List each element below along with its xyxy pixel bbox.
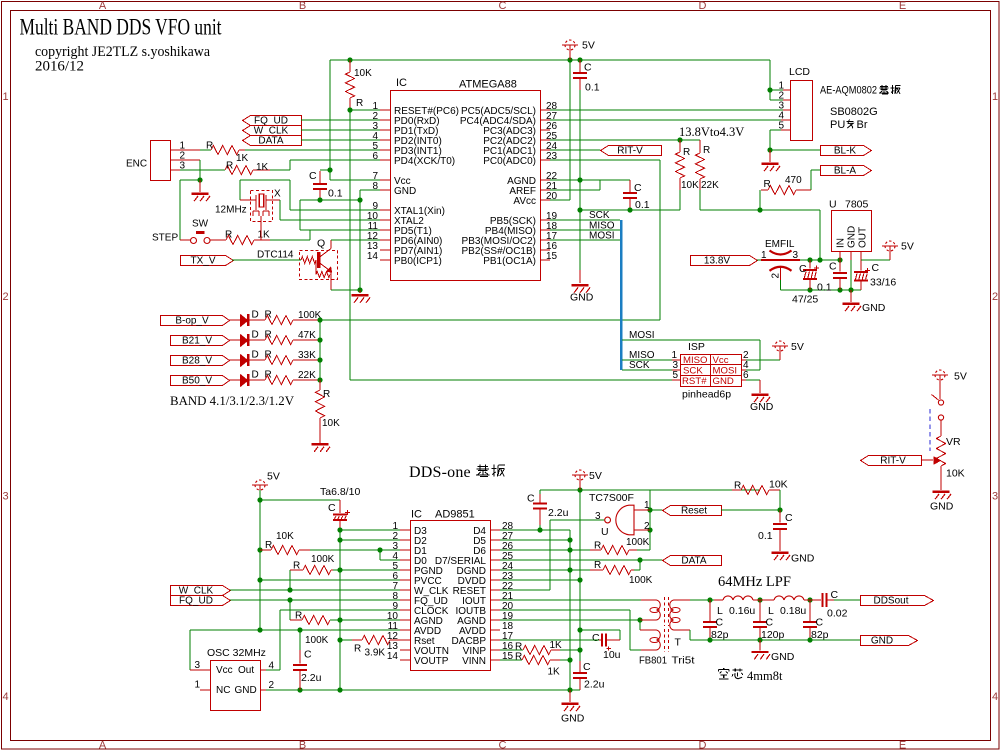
svg-text:C: C [304, 649, 312, 661]
svg-text:C: C [499, 740, 507, 750]
svg-text:L: L [717, 605, 723, 617]
svg-text:VINN: VINN [462, 656, 486, 667]
svg-text:DDS-one: DDS-one [409, 464, 471, 481]
svg-text:1K: 1K [548, 667, 561, 678]
svg-text:C: C [816, 617, 824, 629]
svg-text:GND: GND [561, 713, 585, 725]
svg-text:5V: 5V [954, 371, 967, 383]
svg-text:22K: 22K [701, 180, 719, 191]
svg-text:GND: GND [930, 501, 954, 513]
svg-text:C: C [527, 493, 535, 505]
svg-text:VOUTP: VOUTP [414, 656, 449, 667]
svg-text:GND: GND [394, 186, 416, 197]
svg-text:D: D [699, 740, 707, 750]
svg-text:4: 4 [269, 661, 275, 672]
svg-text:5V: 5V [791, 341, 804, 353]
svg-text:6: 6 [743, 370, 749, 381]
svg-text:1K: 1K [550, 640, 563, 651]
svg-text:SW: SW [192, 219, 209, 230]
svg-text:2.2u: 2.2u [584, 679, 605, 691]
svg-text:A: A [99, 740, 107, 750]
svg-text:pinhead6p: pinhead6p [682, 389, 731, 401]
svg-text:13.8Vto4.3V: 13.8Vto4.3V [679, 125, 744, 139]
svg-text:RIT-V: RIT-V [617, 146, 643, 157]
svg-text:14: 14 [367, 251, 379, 262]
svg-text:OUT: OUT [858, 227, 869, 248]
svg-text:10K: 10K [769, 479, 788, 491]
svg-text:5V: 5V [901, 241, 914, 253]
svg-text:PU: PU [830, 119, 845, 131]
svg-text:3: 3 [595, 511, 601, 522]
svg-text:0.1: 0.1 [758, 530, 773, 542]
svg-text:X: X [274, 189, 281, 200]
svg-text:ENC: ENC [126, 159, 147, 170]
svg-text:BL-K: BL-K [834, 146, 857, 157]
svg-text:R: R [594, 560, 601, 571]
svg-text:GND: GND [750, 401, 774, 413]
svg-text:NC: NC [216, 685, 230, 696]
svg-text:7805: 7805 [845, 199, 869, 211]
svg-text:R: R [265, 369, 272, 380]
svg-text:SCK: SCK [589, 210, 610, 221]
svg-text:MOSI: MOSI [713, 366, 738, 377]
svg-text:GND: GND [570, 292, 594, 304]
svg-text:BL-A: BL-A [834, 166, 857, 177]
svg-text:C: C [716, 617, 724, 629]
svg-text:Q: Q [317, 238, 325, 250]
svg-text:Reset: Reset [681, 506, 707, 517]
svg-text:D: D [252, 329, 259, 340]
svg-text:PD4(XCK/T0): PD4(XCK/T0) [394, 156, 455, 167]
svg-text:R: R [354, 644, 361, 655]
svg-text:1K: 1K [258, 230, 271, 241]
svg-text:0.1: 0.1 [817, 282, 832, 294]
svg-text:33K: 33K [298, 350, 316, 361]
svg-text:100K: 100K [305, 635, 329, 646]
svg-text:D: D [252, 369, 259, 380]
svg-text:ISP: ISP [688, 341, 705, 353]
svg-text:R: R [764, 179, 771, 190]
svg-text:Vcc: Vcc [713, 355, 729, 366]
svg-text:TX_V: TX_V [190, 256, 215, 267]
svg-text:AVcc: AVcc [513, 196, 536, 207]
svg-text:U: U [601, 526, 609, 538]
svg-text:4: 4 [992, 691, 998, 703]
svg-text:PB0(ICP1): PB0(ICP1) [394, 256, 442, 267]
svg-text:2: 2 [2, 291, 8, 303]
svg-text:T: T [675, 637, 682, 649]
svg-text:PC0(ADC0): PC0(ADC0) [483, 156, 536, 167]
svg-text:R: R [356, 98, 363, 109]
svg-text:2: 2 [771, 273, 782, 279]
svg-text:3.9K: 3.9K [365, 648, 386, 659]
svg-text:Tri5t: Tri5t [672, 655, 695, 667]
svg-text:C: C [583, 661, 591, 673]
svg-text:3: 3 [2, 491, 8, 503]
svg-text:5: 5 [672, 370, 678, 381]
svg-text:C: C [831, 589, 839, 601]
svg-text:R: R [265, 329, 272, 340]
svg-text:C: C [634, 182, 642, 194]
svg-text:Ta6.8/10: Ta6.8/10 [320, 486, 360, 498]
svg-text:10K: 10K [322, 418, 340, 429]
svg-text:GND: GND [847, 226, 858, 248]
svg-text:5V: 5V [589, 470, 602, 482]
svg-text:DATA: DATA [258, 136, 284, 147]
svg-text:AD9851: AD9851 [435, 509, 475, 521]
svg-text:64MHz LPF: 64MHz LPF [718, 574, 791, 590]
svg-text:R: R [225, 230, 232, 241]
svg-text:GND: GND [771, 651, 795, 663]
svg-text:0.02: 0.02 [827, 608, 848, 620]
svg-text:L: L [768, 605, 774, 617]
svg-text:2.2u: 2.2u [548, 507, 569, 519]
svg-text:1: 1 [644, 500, 650, 511]
svg-text:1: 1 [2, 91, 8, 103]
svg-text:4: 4 [2, 691, 8, 703]
svg-text:OSC 32MHz: OSC 32MHz [207, 647, 266, 659]
svg-text:3: 3 [992, 491, 998, 503]
svg-text:GND: GND [871, 636, 893, 647]
svg-text:DATA: DATA [681, 556, 707, 567]
svg-text:B: B [299, 740, 306, 750]
svg-text:5: 5 [778, 121, 784, 132]
svg-text:SCK: SCK [629, 360, 650, 371]
svg-text:1K: 1K [236, 153, 249, 164]
svg-text:0.18u: 0.18u [780, 605, 806, 617]
svg-text:2.2u: 2.2u [301, 672, 322, 684]
svg-text:13.8V: 13.8V [704, 256, 730, 267]
svg-text:1: 1 [194, 680, 200, 691]
svg-text:R: R [226, 161, 233, 172]
svg-text:100K: 100K [629, 575, 653, 586]
svg-text:12MHz: 12MHz [215, 205, 247, 216]
svg-text:C: C [309, 170, 317, 182]
svg-text:B28_V: B28_V [182, 356, 212, 367]
svg-text:100K: 100K [626, 537, 650, 548]
svg-text:0.1: 0.1 [328, 188, 343, 200]
svg-text:2: 2 [269, 680, 275, 691]
svg-text:5V: 5V [582, 40, 595, 52]
svg-text:TC7S00F: TC7S00F [589, 492, 634, 504]
svg-text:47/25: 47/25 [792, 294, 818, 306]
svg-text:82p: 82p [711, 629, 729, 641]
svg-text:MOSI: MOSI [629, 330, 655, 341]
svg-text:FQ_UD: FQ_UD [179, 596, 213, 607]
svg-text:2: 2 [992, 291, 998, 303]
svg-text:D: D [699, 0, 707, 12]
svg-text:B50_V: B50_V [182, 376, 212, 387]
svg-text:R: R [206, 141, 213, 152]
svg-text:R: R [295, 611, 302, 622]
svg-text:GND: GND [713, 376, 734, 387]
svg-text:R: R [265, 349, 272, 360]
svg-text:D: D [252, 309, 259, 320]
svg-text:120p: 120p [761, 629, 785, 641]
svg-text:C: C [829, 261, 837, 273]
svg-text:BAND 4.1/3.1/2.3/1.2V: BAND 4.1/3.1/2.3/1.2V [170, 393, 295, 408]
svg-text:R: R [515, 652, 522, 663]
svg-text:ATMEGA88: ATMEGA88 [459, 79, 517, 91]
svg-text:MOSI: MOSI [589, 231, 615, 242]
svg-text:47K: 47K [298, 330, 316, 341]
svg-text:RST#: RST# [682, 376, 707, 387]
svg-text:DTC114: DTC114 [257, 250, 294, 261]
svg-text:5V: 5V [267, 471, 280, 483]
svg-text:R: R [594, 541, 601, 552]
svg-text:2016/12: 2016/12 [35, 59, 84, 75]
svg-text:R: R [683, 147, 690, 158]
svg-text:Multi BAND DDS VFO unit: Multi BAND DDS VFO unit [20, 15, 222, 40]
svg-text:22K: 22K [298, 370, 316, 381]
svg-text:R: R [703, 145, 710, 156]
svg-text:E: E [899, 740, 906, 750]
svg-text:C: C [499, 0, 507, 12]
svg-text:Vcc: Vcc [216, 665, 233, 676]
svg-text:0.1: 0.1 [585, 82, 600, 94]
svg-text:AE-AQM0802: AE-AQM0802 [820, 85, 877, 97]
svg-text:10u: 10u [603, 649, 621, 661]
svg-text:IC: IC [411, 509, 422, 521]
svg-text:470: 470 [785, 175, 802, 186]
svg-text:STEP: STEP [152, 233, 178, 244]
svg-text:A: A [99, 0, 107, 12]
svg-text:100K: 100K [311, 554, 335, 565]
svg-text:C: C [584, 62, 592, 74]
svg-text:R: R [323, 389, 330, 400]
svg-text:GND: GND [235, 685, 257, 696]
svg-text:C: C [592, 632, 600, 644]
svg-text:R: R [734, 481, 741, 492]
svg-text:0.1: 0.1 [635, 199, 650, 211]
svg-text:IN: IN [836, 238, 847, 248]
svg-text:0.16u: 0.16u [729, 605, 755, 617]
svg-text:10K: 10K [946, 468, 965, 480]
svg-text:B21_V: B21_V [182, 336, 212, 347]
svg-text:3: 3 [194, 660, 200, 671]
svg-text:D: D [252, 349, 259, 360]
svg-text:1: 1 [992, 91, 998, 103]
svg-text:4mm8t: 4mm8t [747, 669, 783, 683]
svg-text:10K: 10K [354, 68, 372, 79]
svg-text:C: C [328, 502, 336, 514]
svg-text:E: E [899, 0, 906, 12]
svg-text:R: R [293, 561, 300, 572]
svg-text:R: R [265, 309, 272, 320]
svg-text:U: U [829, 199, 837, 211]
svg-text:LCD: LCD [789, 66, 810, 78]
svg-text:10K: 10K [681, 180, 699, 191]
svg-text:C: C [766, 617, 774, 629]
svg-text:14: 14 [387, 651, 399, 662]
svg-text:B: B [299, 0, 306, 12]
svg-text:MISO: MISO [683, 355, 708, 366]
svg-text:Br: Br [857, 119, 868, 131]
svg-text:82p: 82p [811, 629, 829, 641]
svg-text:C: C [872, 262, 880, 274]
svg-text:EMFIL: EMFIL [765, 239, 795, 250]
svg-text:SCK: SCK [683, 366, 703, 377]
svg-text:VR: VR [946, 436, 961, 448]
svg-text:10K: 10K [276, 531, 294, 542]
svg-text:FB801: FB801 [639, 655, 667, 667]
svg-text:DDSout: DDSout [873, 596, 908, 607]
svg-text:SB0802G: SB0802G [830, 106, 878, 118]
svg-text:B-op_V: B-op_V [175, 316, 209, 327]
svg-text:GND: GND [791, 553, 815, 565]
svg-text:GND: GND [862, 302, 886, 314]
svg-text:PB1(OC1A): PB1(OC1A) [483, 256, 536, 267]
svg-text:Out: Out [238, 665, 254, 676]
svg-text:IC: IC [396, 77, 407, 89]
svg-text:33/16: 33/16 [870, 277, 896, 289]
svg-text:C: C [785, 512, 793, 524]
svg-text:C: C [799, 263, 807, 275]
svg-text:RIT-V: RIT-V [880, 456, 906, 467]
svg-text:1K: 1K [256, 162, 269, 173]
svg-text:R: R [265, 540, 272, 551]
